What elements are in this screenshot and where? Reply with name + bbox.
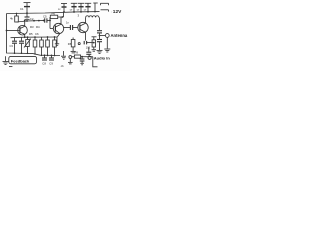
svg-text:C6: C6 [35,32,39,36]
trimmer capacitor C6c tank [85,3,91,12]
node mid-rail tap b [38,20,40,22]
battery 12V connector [93,3,112,14]
svg-text:Audio In: Audio In [94,55,111,60]
svg-text:Antenna: Antenna [111,33,128,38]
resistor R1 [10,13,18,22]
capacitor C5 coupling [43,14,50,22]
node e-bus x35 [34,36,36,38]
ground mid [61,51,66,59]
capacitor C9 antenna coupling [97,31,102,40]
svg-text:cv: cv [77,8,80,11]
node mid-rail tap c [43,20,45,22]
svg-text:R3: R3 [30,25,34,29]
capacitor C13 audio input [86,47,91,56]
annotation box Feedback [9,56,37,63]
svg-text:12V: 12V [113,9,122,15]
svg-text:C5: C5 [43,14,47,18]
resistor R12 [68,38,76,53]
resistor R10 [53,37,57,56]
trimmer capacitor C6b tank [78,3,84,12]
node mid-rail C2 [26,20,28,22]
svg-text:C1: C1 [20,7,24,11]
svg-text:R9: R9 [75,51,79,55]
svg-text:1n: 1n [66,21,69,25]
svg-text:C8: C8 [42,61,46,65]
trimmer capacitor C6d tank [58,4,67,13]
wire antenna tap [100,35,106,37]
resistor R8 [40,37,44,55]
node e-bus Q1 [24,36,26,38]
transistor Q3 [78,17,88,40]
capacitor C14 bottom [80,57,85,65]
capacitor C11 emitter [84,41,95,50]
node mid-rail Q1 collector [24,20,26,22]
wire Q2 emitter drop [56,37,58,43]
wire emitter bus y37 [11,36,58,39]
ground C10 [97,50,103,53]
node e-bus x27.5 [27,36,29,38]
svg-text:R6: R6 [52,12,56,16]
svg-text:R5: R5 [29,32,33,36]
node gnd rail C8 [44,54,46,56]
svg-text:R4: R4 [36,25,40,29]
svg-text:cv: cv [84,8,87,11]
terminal audio in [88,56,91,59]
svg-text:C3: C3 [10,44,14,48]
wire bottom right corner [93,57,98,67]
node e-bus x47.5 [47,36,49,38]
svg-text:Feedback: Feedback [11,58,30,63]
capacitor C7 interstage [64,21,78,31]
node e-bus x54.5 [54,36,56,38]
capacitor C10 [97,40,102,51]
resistor R11 feedback [49,12,63,29]
svg-text:C2: C2 [30,17,34,21]
transistor Q2 [53,17,63,37]
node mid-rail tap a [33,20,35,22]
ground left wire [3,56,9,64]
capacitor C4 [19,37,24,53]
terminal bottom left small [69,56,72,59]
node ground rail taps [14,52,16,54]
wire antenna shield drop [106,37,108,48]
capacitor C12 [49,55,54,65]
wire top supply rail [7,12,100,14]
node small o [78,43,80,45]
svg-text:100: 100 [86,46,91,50]
node rail R1 [16,13,18,15]
svg-text:3: 3 [78,14,80,18]
capacitor C3 [10,38,18,53]
resistor R2 [33,37,37,54]
capacitor C2 [25,13,34,21]
ground antenna shield [104,49,110,52]
node rail battery [94,11,96,13]
transistor Q1 [6,21,28,37]
svg-text:cb: cb [61,64,64,68]
resistor R13 bottom [72,51,93,59]
svg-text:cv: cv [58,8,61,11]
ground under terminal [68,58,73,64]
svg-text:4k: 4k [10,17,14,21]
wire mid rail [17,20,45,22]
wire left vertical bus [7,14,61,56]
svg-text:C9: C9 [49,61,53,65]
tick below feedback box [9,66,12,68]
trimmer resistor RV1 [24,37,31,53]
resistor R9 [46,37,50,55]
node gnd rail C12 [51,55,53,57]
trimmer capacitor C6a tank [71,3,77,13]
capacitor C8 [42,55,47,65]
trimmer capacitor C1 top-left [20,3,31,15]
svg-text:cv: cv [70,8,73,11]
terminal antenna [105,34,109,38]
inductor L1 [86,16,100,31]
resistor R7 [92,37,97,51]
